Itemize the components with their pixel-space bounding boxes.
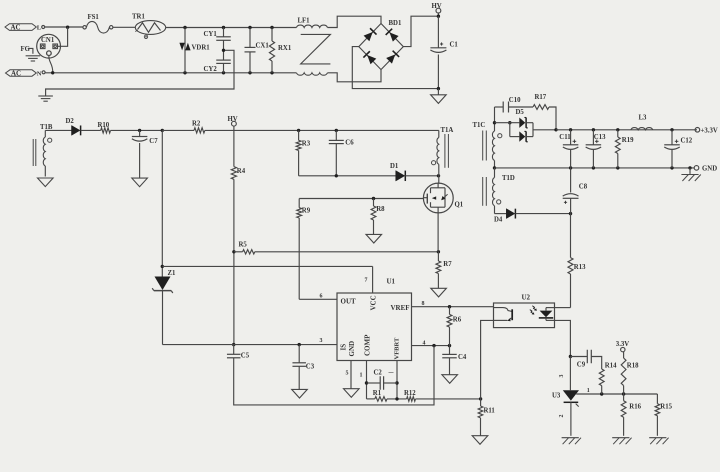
svg-text:T1D: T1D: [502, 175, 515, 182]
svg-text:R3: R3: [302, 141, 311, 148]
svg-text:C11: C11: [559, 134, 571, 141]
svg-text:CY1: CY1: [204, 31, 218, 38]
svg-text:2: 2: [559, 415, 565, 418]
svg-text:FG: FG: [21, 46, 31, 53]
svg-text:R14: R14: [605, 363, 617, 370]
svg-text:FS1: FS1: [88, 14, 100, 21]
svg-text:VREF: VREF: [391, 304, 410, 312]
svg-text:U1: U1: [387, 278, 396, 286]
svg-text:C5: C5: [241, 353, 250, 360]
svg-text:HV: HV: [228, 116, 238, 123]
svg-text:R6: R6: [453, 317, 462, 324]
svg-text:TR1: TR1: [132, 14, 145, 21]
svg-text:T1A: T1A: [441, 127, 454, 134]
svg-text:D2: D2: [66, 118, 75, 125]
svg-text:C13: C13: [594, 134, 606, 141]
svg-text:BD1: BD1: [389, 20, 402, 27]
svg-text:7: 7: [365, 278, 368, 284]
svg-text:U2: U2: [522, 294, 531, 302]
svg-text:R2: R2: [192, 121, 201, 128]
svg-text:C12: C12: [681, 138, 693, 145]
svg-text:IS: IS: [340, 344, 348, 351]
svg-text:3: 3: [559, 375, 565, 378]
svg-text:C6: C6: [345, 139, 354, 146]
svg-text:R17: R17: [535, 94, 547, 101]
svg-text:1: 1: [360, 373, 363, 379]
svg-text:R5: R5: [239, 242, 248, 249]
svg-text:R16: R16: [629, 404, 641, 411]
svg-text:GND: GND: [348, 341, 356, 357]
svg-text:VFBRT: VFBRT: [393, 337, 400, 359]
svg-text:COMP: COMP: [363, 334, 371, 356]
svg-text:1: 1: [587, 388, 590, 394]
svg-text:R7: R7: [443, 261, 452, 268]
svg-text:R19: R19: [622, 137, 634, 144]
svg-text:3.3V: 3.3V: [616, 341, 629, 348]
svg-text:L: L: [37, 25, 42, 32]
svg-text:GND: GND: [702, 166, 717, 173]
svg-text:C7: C7: [149, 138, 158, 145]
svg-text:+3.3V: +3.3V: [701, 128, 718, 135]
svg-text:Z1: Z1: [168, 270, 177, 277]
svg-text:T1C: T1C: [473, 122, 486, 129]
svg-text:C2: C2: [374, 370, 383, 377]
svg-text:CN1: CN1: [41, 37, 55, 44]
svg-text:U3: U3: [552, 393, 561, 400]
svg-text:R9: R9: [302, 208, 311, 215]
svg-text:R8: R8: [376, 206, 385, 213]
svg-text:Q1: Q1: [455, 202, 464, 209]
svg-text:D4: D4: [494, 217, 503, 224]
svg-text:CX1: CX1: [256, 43, 270, 50]
svg-text:R4: R4: [237, 168, 246, 175]
svg-text:HV: HV: [432, 3, 442, 10]
svg-text:L3: L3: [639, 115, 648, 122]
svg-text:AC: AC: [11, 70, 21, 78]
svg-text:6: 6: [320, 294, 323, 300]
svg-text:C8: C8: [579, 184, 588, 191]
svg-text:R13: R13: [574, 264, 586, 271]
svg-text:D1: D1: [390, 163, 399, 170]
svg-text:C3: C3: [306, 364, 315, 371]
svg-text:R1: R1: [373, 390, 382, 397]
svg-text:VCC: VCC: [370, 295, 378, 310]
svg-text:OUT: OUT: [341, 298, 357, 306]
svg-text:R18: R18: [627, 363, 639, 370]
svg-text:C1: C1: [450, 42, 459, 49]
svg-text:AC: AC: [11, 24, 21, 32]
svg-text:R10: R10: [98, 122, 110, 129]
svg-text:VDR1: VDR1: [192, 45, 211, 52]
svg-text:3: 3: [320, 338, 323, 344]
svg-text:LF1: LF1: [298, 17, 311, 24]
svg-text:8: 8: [422, 301, 425, 307]
svg-text:5: 5: [346, 371, 349, 377]
svg-text:R15: R15: [660, 404, 672, 411]
svg-text:N: N: [37, 71, 42, 78]
svg-text:RX1: RX1: [278, 45, 292, 52]
svg-text:R11: R11: [484, 408, 496, 415]
svg-text:C4: C4: [458, 354, 467, 361]
svg-text:D5: D5: [516, 109, 525, 116]
svg-text:C10: C10: [509, 97, 521, 104]
svg-text:CY2: CY2: [204, 66, 218, 73]
svg-text:C9: C9: [577, 362, 586, 369]
